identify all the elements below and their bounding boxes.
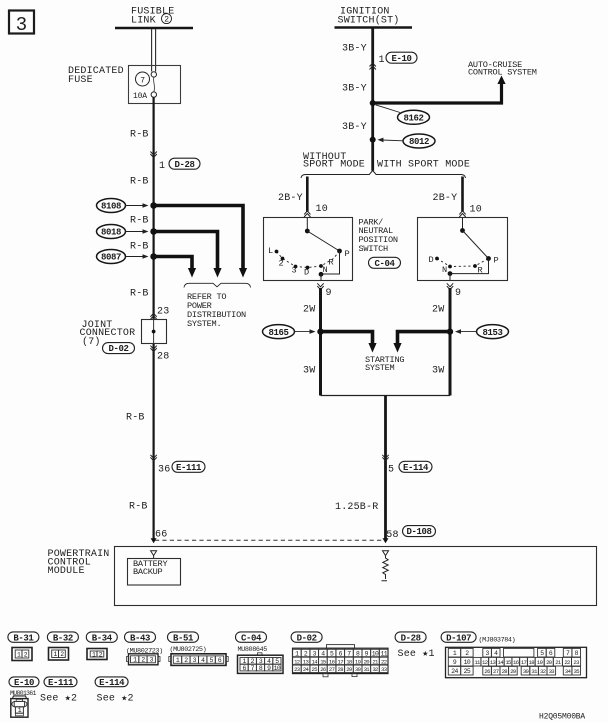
svg-text:(MJ803784): (MJ803784) (479, 637, 516, 645)
svg-text:SWITCH: SWITCH (359, 244, 389, 254)
svg-text:2W: 2W (432, 304, 444, 315)
chevron down joint connector (150, 346, 156, 352)
legend connector ref B-43 (125, 632, 156, 643)
female terminal right (383, 551, 389, 556)
svg-text:SPORT MODE: SPORT MODE (303, 160, 365, 171)
svg-text:16: 16 (513, 659, 519, 666)
svg-text:FUSE: FUSE (68, 75, 93, 86)
svg-text:E-111: E-111 (48, 678, 74, 688)
svg-text:3B-Y: 3B-Y (342, 44, 367, 55)
wire branch from 8108 to power distribution (154, 206, 243, 270)
svg-text:27: 27 (493, 668, 499, 675)
svg-text:H2Q05M00BA: H2Q05M00BA (539, 712, 585, 721)
svg-text:23: 23 (294, 666, 300, 673)
connector ref E-111 (172, 461, 205, 473)
svg-text:17: 17 (521, 659, 527, 666)
svg-text:3B-Y: 3B-Y (342, 122, 367, 133)
male terminal into PCM right (383, 538, 389, 543)
legend pinout B-31 (12, 648, 32, 661)
svg-text:R-B: R-B (126, 413, 145, 424)
node splice 8162 junction (370, 100, 376, 106)
svg-text:B-31: B-31 (13, 633, 34, 643)
legend connector ref C-04 (236, 632, 267, 643)
chevron up right switch entry (459, 211, 465, 217)
svg-text:BACKUP: BACKUP (133, 567, 163, 577)
svg-text:8018: 8018 (101, 228, 121, 238)
svg-text:26: 26 (484, 668, 490, 675)
legend connector ref E-10 (9, 677, 39, 688)
svg-text:19: 19 (355, 658, 361, 665)
legend connector ref B-34 (86, 632, 117, 643)
svg-text:5: 5 (388, 464, 394, 475)
svg-text:SYSTEM: SYSTEM (365, 363, 395, 373)
svg-text:R-B: R-B (129, 502, 148, 513)
svg-text:B-32: B-32 (53, 633, 73, 643)
splice 8087 (97, 250, 157, 264)
svg-text:WITH SPORT MODE: WITH SPORT MODE (377, 160, 470, 171)
joint connector label (80, 320, 136, 348)
svg-text:D-02: D-02 (108, 344, 128, 354)
svg-text:D-28: D-28 (174, 160, 194, 170)
svg-text:66: 66 (155, 529, 167, 540)
brace over refer-to note (184, 283, 251, 287)
svg-text:P: P (345, 249, 350, 259)
svg-text:23: 23 (157, 306, 169, 317)
battery backup box (128, 559, 181, 586)
svg-text:(7): (7) (82, 336, 101, 348)
svg-text:22: 22 (564, 659, 570, 666)
wire fork bracket to both switches (301, 171, 466, 179)
dashed connector interface line (155, 539, 385, 541)
legend pinout D-107 (446, 647, 587, 677)
svg-text:33: 33 (381, 666, 387, 673)
svg-text:10: 10 (372, 650, 379, 657)
svg-text:See ★2: See ★2 (97, 693, 134, 704)
chevron up left switch entry (304, 211, 310, 217)
svg-text:32: 32 (540, 668, 546, 675)
svg-text:29: 29 (510, 668, 516, 675)
svg-text:2: 2 (164, 16, 169, 25)
svg-text:R: R (329, 258, 334, 268)
dedicated fuse label (68, 66, 124, 86)
connector chevron E-111 (150, 455, 156, 461)
connector ref E-10 (386, 52, 417, 64)
splice 8108 (97, 199, 157, 213)
svg-text:R-B: R-B (130, 215, 149, 226)
dedicated fuse 7 10A (129, 66, 181, 104)
wire branch from 8087 to power distribution (154, 257, 192, 270)
connector ref C-04 (369, 257, 401, 269)
legend pinout B-51 (169, 654, 228, 666)
svg-text:13: 13 (490, 659, 496, 666)
svg-text:LINK: LINK (131, 15, 156, 26)
svg-text:N: N (442, 265, 447, 275)
svg-text:C-04: C-04 (241, 633, 262, 643)
svg-text:12: 12 (294, 658, 300, 665)
svg-text:8153: 8153 (482, 328, 502, 338)
connector ref D-02 (103, 343, 135, 355)
svg-text:N: N (323, 265, 328, 275)
svg-text:D-107: D-107 (446, 633, 471, 643)
ignition switch label (338, 6, 400, 26)
svg-text:35: 35 (574, 668, 580, 675)
svg-text:18: 18 (529, 659, 535, 666)
svg-text:36: 36 (158, 464, 170, 475)
connector ref D-28 (169, 158, 200, 170)
svg-text:R-B: R-B (130, 177, 149, 188)
svg-text:SWITCH(ST): SWITCH(ST) (338, 14, 400, 26)
double wire from fusible link to dedicated fuse (152, 29, 156, 72)
legend connector ref D-02 (291, 632, 322, 643)
svg-text:25: 25 (464, 668, 471, 675)
legend pinout B-32 (49, 648, 69, 661)
svg-text:10A: 10A (133, 92, 147, 101)
svg-text:See ★2: See ★2 (40, 693, 77, 704)
connector chevron E-114 (382, 455, 388, 461)
legend pinout C-04 (238, 653, 284, 674)
auto-cruise control system label (468, 60, 537, 78)
resistor inside PCM (382, 556, 389, 581)
svg-text:E-114: E-114 (99, 678, 125, 688)
svg-text:8162: 8162 (403, 114, 423, 124)
svg-text:8165: 8165 (268, 328, 288, 338)
ignition switch bus bar (335, 26, 413, 29)
svg-text:P: P (494, 256, 499, 266)
svg-text:3: 3 (292, 266, 297, 276)
powertrain control module label (48, 549, 110, 577)
legend connector ref B-31 (8, 632, 39, 643)
svg-text:8087: 8087 (101, 253, 121, 263)
chevron up joint connector (150, 313, 156, 319)
splice ref 8165 (263, 325, 316, 339)
svg-text:16: 16 (329, 658, 335, 665)
svg-text:R-B: R-B (130, 130, 149, 141)
svg-text:27: 27 (329, 666, 335, 673)
wire R-B main left vertical (153, 97, 155, 538)
svg-text:E-10: E-10 (391, 54, 411, 64)
svg-text:10: 10 (464, 659, 471, 666)
svg-text:1.25B-R: 1.25B-R (335, 502, 378, 513)
fusible link 2 label (131, 6, 174, 26)
svg-text:10: 10 (316, 204, 328, 215)
svg-text:19: 19 (537, 659, 543, 666)
svg-text:3W: 3W (303, 366, 315, 377)
svg-text:32: 32 (372, 666, 378, 673)
svg-text:25: 25 (312, 666, 318, 673)
node splice 8153 junction (447, 328, 453, 334)
splice ref 8153 (455, 325, 509, 339)
svg-text:E-114: E-114 (403, 463, 429, 473)
connector chevron D-28 (150, 152, 156, 158)
svg-text:23: 23 (573, 659, 579, 666)
connector ref E-114 (399, 461, 432, 473)
svg-text:SYSTEM.: SYSTEM. (187, 319, 221, 329)
wire 2B-Y right drop (461, 177, 464, 212)
legend connector ref E-114 (95, 677, 128, 688)
svg-text:1: 1 (379, 55, 385, 66)
starting system label (365, 355, 404, 373)
connector ref D-108 (403, 526, 436, 538)
legend connector ref E-111 (44, 677, 77, 688)
svg-text:9: 9 (326, 288, 332, 299)
svg-text:D-02: D-02 (297, 633, 317, 643)
svg-text:D-108: D-108 (406, 527, 431, 537)
svg-text:17: 17 (338, 658, 344, 665)
svg-text:10: 10 (274, 665, 281, 672)
svg-text:MU808645: MU808645 (238, 646, 268, 654)
wire branch from 8018 to power distribution (154, 232, 218, 270)
without sport mode label (303, 152, 365, 171)
wire 2W right vertical (449, 288, 452, 396)
svg-text:L: L (268, 246, 273, 256)
svg-text:28: 28 (502, 668, 508, 675)
svg-text:3W: 3W (432, 366, 444, 377)
svg-text:3: 3 (16, 14, 27, 36)
svg-text:58: 58 (386, 530, 398, 541)
svg-text:E-111: E-111 (176, 463, 202, 473)
powertrain control module box (115, 547, 597, 606)
svg-text:E-10: E-10 (14, 678, 34, 688)
legend connector ref D-28 (395, 632, 426, 643)
svg-text:28: 28 (338, 666, 344, 673)
svg-text:See ★1: See ★1 (398, 649, 435, 660)
svg-text:18: 18 (346, 658, 352, 665)
fusible link bus bar (115, 27, 193, 30)
svg-text:10: 10 (470, 205, 482, 216)
female terminal left (151, 551, 157, 559)
chevron up E-10 (370, 63, 376, 70)
note refer to power distribution system (187, 292, 246, 329)
svg-text:B-34: B-34 (92, 633, 113, 643)
svg-text:8108: 8108 (101, 202, 121, 212)
wire branch to auto-cruise control system (373, 76, 506, 104)
svg-text:R-B: R-B (130, 241, 149, 252)
legend pinout B-43 (127, 654, 161, 665)
splice ref 8162 (376, 105, 430, 125)
wire branch right to starting system (393, 332, 450, 353)
svg-text:B-43: B-43 (130, 633, 150, 643)
park/neutral position switch without sport mode box (264, 218, 353, 281)
splice ref 8012 (378, 134, 436, 148)
right switch internals (429, 218, 499, 281)
svg-text:8012: 8012 (409, 137, 429, 147)
legend connector ref B-32 (47, 632, 78, 643)
svg-text:24: 24 (451, 668, 458, 675)
svg-text:7: 7 (140, 76, 145, 85)
legend connector ref D-107 (441, 632, 476, 643)
svg-text:2B-Y: 2B-Y (278, 193, 303, 204)
svg-text:MODULE: MODULE (48, 566, 85, 577)
legend connector ref B-51 (168, 632, 199, 643)
svg-text:33: 33 (549, 668, 555, 675)
legend pinout B-34 (87, 649, 107, 660)
svg-text:9: 9 (455, 288, 461, 299)
legend pinout E-10 (11, 696, 28, 717)
svg-text:C-04: C-04 (374, 259, 395, 269)
wire branch left to starting system (321, 332, 377, 353)
svg-text:26: 26 (320, 666, 326, 673)
svg-text:15: 15 (320, 658, 326, 665)
wire join horizontal (321, 395, 451, 397)
svg-text:2W: 2W (303, 304, 315, 315)
svg-text:2B-Y: 2B-Y (433, 193, 458, 204)
svg-text:D: D (429, 255, 434, 265)
male terminal into PCM left (151, 538, 157, 543)
node splice 8165 junction (317, 328, 323, 334)
chevron down right switch exit (447, 283, 453, 289)
splice 8018 (97, 225, 157, 239)
svg-text:2: 2 (279, 258, 284, 268)
wire 3B-Y ignition vertical (371, 29, 374, 171)
legend pinout D-02 (293, 645, 389, 677)
svg-text:CONTROL SYSTEM: CONTROL SYSTEM (468, 68, 537, 78)
svg-text:28: 28 (157, 352, 169, 363)
wire 2W left vertical (319, 288, 322, 396)
svg-text:12: 12 (482, 659, 488, 666)
node splice 8012 (370, 137, 376, 143)
wire 2B-Y left drop (306, 177, 309, 212)
svg-text:1: 1 (159, 161, 165, 172)
svg-text:D: D (304, 267, 309, 277)
wire 1.25B-R center vertical (384, 396, 387, 539)
svg-text:R: R (478, 266, 483, 276)
svg-text:22: 22 (381, 658, 387, 665)
park/neutral position switch with sport mode box (418, 218, 508, 281)
joint connector box (142, 319, 167, 344)
chevron down left switch exit (317, 283, 323, 289)
park/neutral position switch label (359, 217, 398, 253)
svg-text:D-28: D-28 (401, 633, 421, 643)
svg-text:R-B: R-B (130, 289, 149, 300)
page number box 3 (9, 11, 34, 37)
left switch internals (268, 218, 350, 281)
svg-text:3B-Y: 3B-Y (342, 84, 367, 95)
svg-text:11: 11 (380, 650, 387, 657)
svg-text:15: 15 (505, 659, 511, 666)
svg-text:B-51: B-51 (173, 633, 194, 643)
svg-text:29: 29 (346, 666, 352, 673)
svg-text:13: 13 (303, 658, 309, 665)
